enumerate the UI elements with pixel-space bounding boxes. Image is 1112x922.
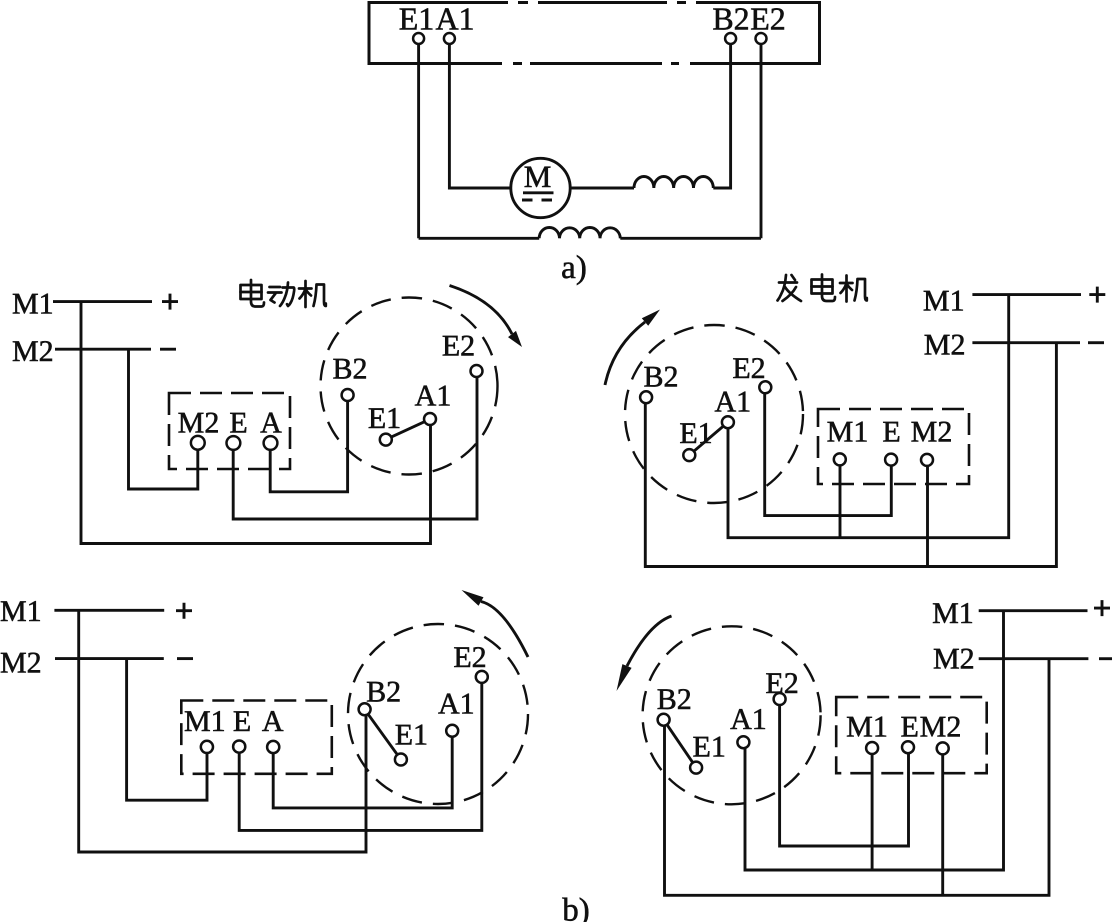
svg-text:a): a)	[561, 250, 587, 286]
motor underline dashed	[522, 199, 552, 202]
svg-text:M1: M1	[184, 705, 226, 738]
wire M2(-) to B2	[645, 343, 1056, 567]
wire A to A1	[273, 737, 452, 808]
wire E to E2	[233, 377, 477, 519]
rotor terminal B2	[359, 703, 371, 715]
minus sign	[177, 657, 193, 660]
label 发电机 (generator)	[778, 275, 867, 302]
svg-text:M2: M2	[178, 407, 220, 440]
wire M2 lead	[55, 348, 151, 351]
svg-text:E1: E1	[679, 417, 712, 450]
rotor terminal E1	[380, 434, 392, 446]
svg-text:E: E	[229, 407, 247, 440]
rotor circle (dashed)	[321, 298, 498, 475]
svg-text:b): b)	[562, 893, 590, 922]
brush link E1-A1	[694, 427, 723, 452]
wire branch terminal M1	[871, 754, 874, 870]
svg-text:E: E	[901, 711, 919, 744]
svg-text:E: E	[882, 416, 900, 449]
rotor terminal E1	[683, 449, 695, 461]
bottom wire left	[419, 237, 540, 240]
rotor terminal E2	[759, 381, 771, 393]
svg-text:E2: E2	[442, 330, 475, 363]
terminal box (broken outline)	[368, 1, 820, 65]
wire M2 lead	[972, 341, 1080, 344]
rotor terminal A1	[424, 413, 436, 425]
terminal E	[227, 436, 241, 450]
wire branch terminal M2	[926, 466, 929, 567]
wire E to E2	[239, 683, 482, 830]
wire M1 lead	[979, 609, 1088, 612]
brush link B2-E1	[368, 714, 397, 754]
motor underline solid	[523, 191, 554, 194]
wire M2(-) to terminal M2	[129, 349, 198, 489]
rotor terminal E2	[774, 693, 786, 705]
wire E2 to E	[780, 705, 909, 846]
svg-text:M1: M1	[0, 595, 42, 628]
svg-text:M1: M1	[846, 711, 888, 744]
svg-text:E1: E1	[368, 402, 401, 435]
wire M1(+) to B2	[79, 610, 366, 852]
terminal A	[267, 741, 279, 753]
minus sign	[1099, 657, 1112, 660]
svg-text:M1: M1	[12, 288, 54, 321]
terminal box (dashed)	[181, 701, 331, 774]
wire motor to field coil	[570, 187, 634, 190]
terminal A	[264, 436, 278, 450]
minus sign	[1088, 341, 1104, 344]
rotor circle (dashed)	[625, 325, 803, 503]
terminal M2	[191, 436, 205, 450]
terminal B2	[725, 33, 736, 44]
motor M1 circle	[511, 158, 570, 217]
svg-text:E2: E2	[765, 667, 798, 700]
terminal M2	[921, 454, 933, 466]
rotation arrow (counter-clockwise up)	[605, 322, 645, 385]
svg-text:M2: M2	[924, 328, 966, 361]
rotor terminal E1	[395, 754, 407, 766]
svg-text:E1: E1	[693, 731, 726, 764]
wire E1 down to bottom bus	[417, 44, 420, 238]
svg-text:E1: E1	[399, 1, 435, 37]
plus sign	[176, 603, 192, 619]
wire M1 lead	[54, 609, 164, 612]
rotor terminal A1	[722, 416, 734, 428]
label 电动机 (motor)	[241, 280, 326, 307]
wire M2(-) to B2	[665, 659, 1050, 896]
svg-text:B2: B2	[712, 1, 749, 37]
brush link B2-E1	[667, 725, 692, 762]
terminal box (dashed)	[818, 409, 969, 484]
wire M1(+) to A1	[728, 295, 1009, 538]
svg-text:M1: M1	[932, 597, 974, 630]
rotation arrow (clockwise)	[450, 286, 513, 335]
svg-text:A1: A1	[714, 386, 751, 419]
wire branch terminal M2 (thin)	[941, 755, 944, 896]
wire A to B2	[270, 401, 347, 492]
terminal M2	[937, 742, 949, 754]
svg-text:M2: M2	[0, 646, 42, 679]
svg-text:E1: E1	[395, 718, 428, 751]
svg-text:M1: M1	[923, 285, 965, 318]
svg-text:M2: M2	[920, 711, 962, 744]
terminal box (dashed)	[836, 697, 987, 773]
rotor terminal E1	[690, 762, 702, 774]
rotor terminal B2	[342, 389, 354, 401]
wire coil to B2 riser	[713, 44, 730, 188]
rotor terminal A1	[446, 725, 458, 737]
rotor terminal B2	[658, 714, 670, 726]
wire M1 lead	[972, 293, 1081, 296]
bottom wire right	[620, 237, 761, 240]
wire M2 lead	[979, 657, 1089, 660]
inductor L2 (shunt field coil)	[539, 227, 620, 238]
svg-text:M2: M2	[933, 643, 975, 676]
svg-text:A1: A1	[435, 1, 474, 37]
wire M1(+) to A1	[745, 611, 1004, 870]
wire M1(+) to A1	[81, 302, 431, 544]
brush link E1-A1	[391, 422, 424, 437]
svg-text:A1: A1	[438, 687, 475, 720]
rotor terminal E2	[471, 365, 483, 377]
terminal M1	[866, 742, 878, 754]
svg-text:E2: E2	[750, 1, 786, 37]
svg-text:M2: M2	[911, 416, 953, 449]
terminal M1	[201, 741, 213, 753]
svg-text:M2: M2	[12, 335, 54, 368]
svg-text:E: E	[233, 705, 251, 738]
plus sign	[1094, 600, 1110, 616]
wire branch terminal M1	[839, 465, 842, 538]
wire E2 to E	[765, 394, 892, 516]
wire A1 down to motor	[449, 44, 510, 188]
terminal E2	[756, 33, 767, 44]
rotation arrow (counter-clockwise down)	[627, 616, 672, 666]
rotor terminal A1	[737, 736, 749, 748]
rotor circle (dashed)	[643, 626, 821, 804]
svg-text:A: A	[260, 407, 282, 440]
svg-text:M1: M1	[827, 416, 869, 449]
svg-text:B2: B2	[332, 353, 367, 386]
svg-text:A1: A1	[730, 703, 767, 736]
minus sign	[160, 348, 176, 351]
plus sign	[1089, 287, 1105, 303]
svg-text:M: M	[524, 159, 552, 194]
terminal E	[902, 741, 914, 753]
svg-text:E2: E2	[453, 641, 486, 674]
svg-text:A: A	[262, 705, 284, 738]
terminal M1	[834, 453, 846, 465]
svg-text:B2: B2	[643, 361, 678, 394]
wire E2 riser	[760, 44, 763, 238]
rotor circle (dashed)	[348, 624, 528, 804]
terminal E1	[413, 33, 424, 44]
terminal E	[233, 741, 245, 753]
svg-text:A1: A1	[415, 380, 452, 413]
rotor terminal B2	[640, 391, 652, 403]
rotation arrow (counter-clockwise)	[481, 602, 528, 658]
wire M1 lead	[53, 300, 152, 303]
plus sign	[162, 294, 178, 310]
terminal box (dashed)	[169, 393, 290, 469]
svg-text:E2: E2	[732, 352, 765, 385]
inductor L1 (series field coil)	[634, 176, 713, 188]
svg-text:B2: B2	[657, 683, 692, 716]
rotor terminal E2	[476, 671, 488, 683]
terminal A1	[444, 33, 455, 44]
svg-text:B2: B2	[366, 676, 401, 709]
terminal E	[885, 454, 897, 466]
wire M2(-) to terminal M1	[127, 659, 207, 801]
wire M2 lead	[55, 657, 164, 660]
